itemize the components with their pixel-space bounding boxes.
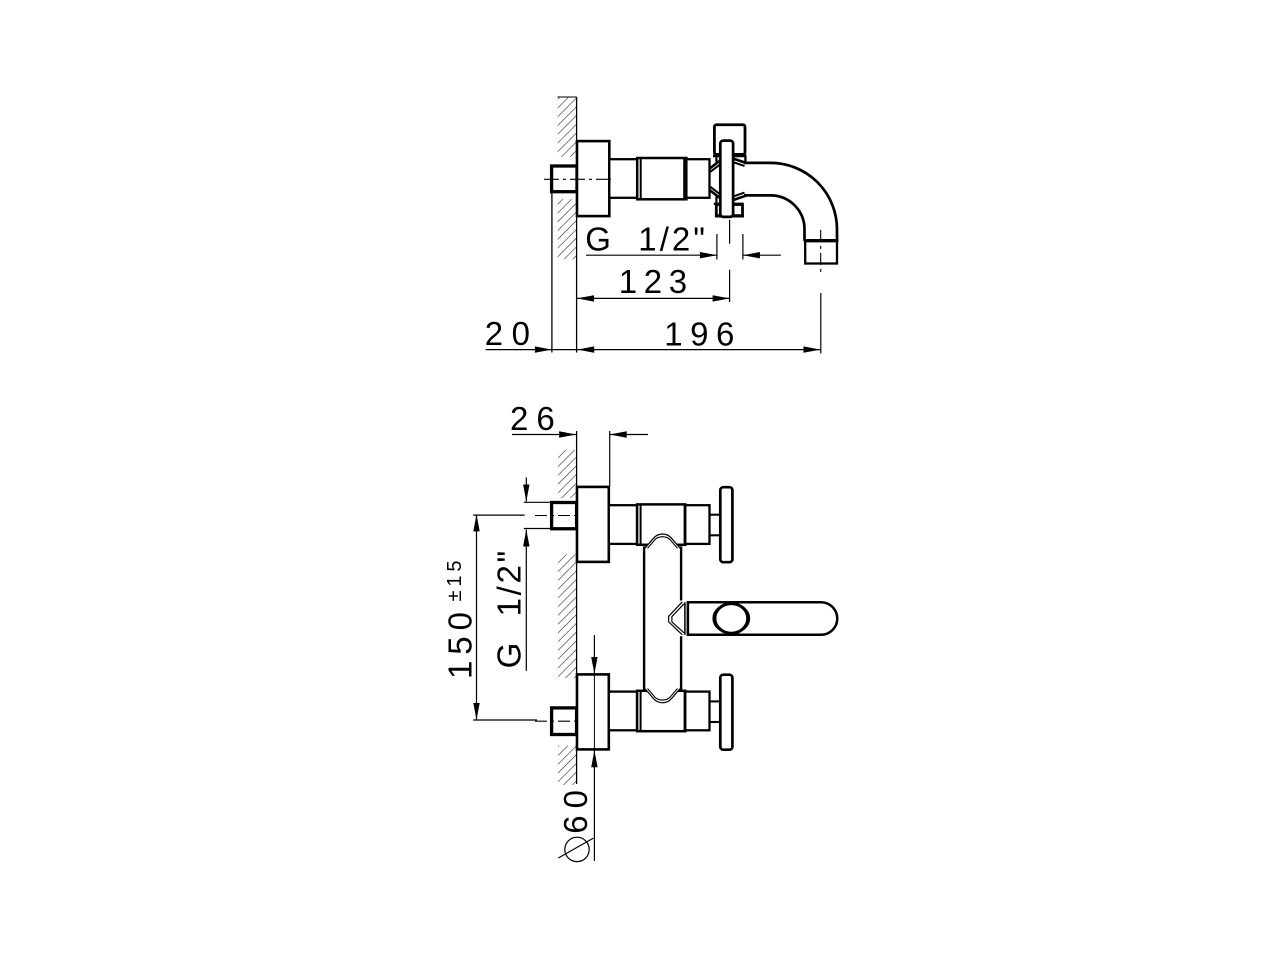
bottom inlet: union nut — [637, 691, 685, 731]
valve right upper facet — [733, 159, 746, 163]
bottom inlet: escutcheon — [577, 674, 609, 749]
lever mount plate — [684, 602, 686, 635]
tube bottom arch joint — [645, 688, 680, 703]
escutcheon — [577, 141, 609, 216]
handle disc (edge view) — [720, 141, 733, 217]
svg-text:123: 123 — [619, 263, 687, 300]
wall hatching top segment — [558, 97, 577, 157]
top inlet: pipe 2 — [685, 505, 709, 544]
union nut inner edge lines — [640, 158, 642, 199]
central tube left edge — [643, 546, 645, 690]
wall hatching segment 1 — [558, 450, 577, 498]
wall hatching segment 2 — [558, 554, 577, 678]
wall top edge — [558, 96, 577, 98]
svg-text:G 1/2": G 1/2" — [585, 221, 705, 258]
lever mount chevron — [669, 602, 683, 635]
top inlet: nipple centerline — [535, 515, 579, 517]
top inlet: handle stem — [710, 514, 721, 516]
valve left upper facet — [710, 160, 721, 168]
svg-text:150: 150 — [442, 612, 479, 679]
wall hatching segment 3 — [558, 746, 577, 785]
pipe section 1 — [609, 159, 637, 198]
bottom inlet: pipe — [609, 692, 637, 731]
wall face line — [576, 97, 578, 353]
wall face line — [576, 431, 578, 784]
valve left lower facet — [710, 190, 721, 198]
wall back extension line — [551, 192, 553, 353]
axis centerline — [544, 178, 612, 180]
bottom inlet: handle stem — [710, 700, 721, 702]
spout outlet top edge — [804, 239, 839, 242]
svg-text:196: 196 — [664, 315, 734, 352]
svg-text:G 1/2": G 1/2" — [491, 551, 528, 669]
bottom inlet: handle disc — [720, 675, 732, 750]
top inlet: nipple — [552, 503, 577, 529]
supply nipple — [552, 166, 577, 192]
bottom inlet: pipe 2 — [685, 692, 709, 731]
union nut — [637, 158, 686, 199]
spout root edge — [744, 156, 746, 164]
valve bottom cap — [716, 205, 742, 216]
valve top cap — [714, 125, 745, 155]
valve bottom shoulders — [714, 203, 721, 205]
outlet centerline — [820, 230, 822, 272]
valve centerline extension upper — [729, 220, 731, 244]
central tube right edge lower — [680, 636, 682, 690]
bottom inlet: nipple centerline — [535, 720, 579, 722]
valve right lower facet — [733, 196, 746, 200]
valve body left edge — [715, 157, 717, 162]
top inlet: union nut — [637, 504, 685, 544]
top inlet: pipe — [609, 505, 637, 544]
central tube right edge upper — [680, 546, 682, 600]
valve top shoulder band — [713, 154, 746, 157]
lever handle capsule — [688, 602, 837, 635]
tube top arch joint — [645, 534, 680, 549]
spout outlet piece — [805, 241, 837, 264]
top inlet: handle disc — [720, 487, 732, 562]
pipe section 2 — [686, 159, 709, 198]
wall hatching lower segment — [558, 199, 577, 259]
outlet extension line — [820, 293, 822, 354]
spout upper outline — [744, 163, 837, 241]
spout lower outline — [744, 195, 805, 240]
top inlet: escutcheon — [577, 487, 609, 562]
bottom inlet: nipple — [552, 708, 577, 735]
dimension dia 60 — [593, 635, 595, 674]
diameter symbol — [565, 837, 589, 861]
lever knob thin ring — [713, 603, 750, 633]
valve centerline extension lower — [729, 270, 731, 302]
svg-text:±15: ±15 — [444, 561, 466, 602]
lever knob — [715, 604, 748, 634]
